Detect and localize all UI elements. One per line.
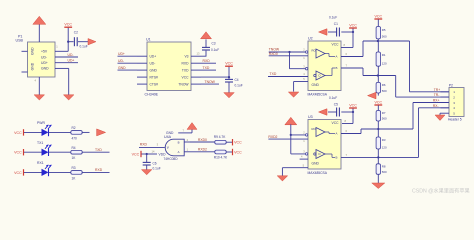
svg-text:UD-: UD- (41, 55, 47, 59)
svg-text:VCC: VCC (375, 14, 383, 18)
svg-text:R4: R4 (72, 146, 76, 150)
wire P2 pin 5 (440, 112, 449, 114)
wire RE to DE vertical U3 (290, 135, 292, 154)
svg-text:R3: R3 (382, 138, 386, 142)
LED PWR (42, 129, 49, 136)
wire TXD to U2 DI (268, 76, 308, 78)
svg-text:TNOW: TNOW (178, 82, 189, 86)
wire C1 left (328, 31, 337, 33)
wire TR- row (396, 96, 449, 98)
svg-text:RXD0: RXD0 (269, 52, 278, 56)
wire to VCC port U3 (352, 108, 354, 112)
svg-text:P2: P2 (449, 83, 453, 87)
wire VCC rail vertical (67, 28, 69, 52)
svg-text:UD+: UD+ (41, 61, 48, 65)
wire A up U3 (360, 129, 362, 134)
resistor R7 (376, 111, 380, 122)
wire A to header vertical (409, 41, 411, 92)
svg-text:TR-: TR- (434, 93, 440, 97)
wire C5 left (328, 111, 337, 113)
wire R9 to VCC (226, 141, 233, 143)
svg-text:GND: GND (150, 68, 158, 72)
power port VCC (U2 chain) (374, 18, 382, 20)
svg-text:0.1uF: 0.1uF (329, 96, 337, 100)
stub P1 left shell pin b (22, 71, 28, 73)
IC U2 MAX485CSA body (308, 41, 341, 91)
wire RXD0 to R9 (190, 141, 215, 143)
svg-text:VCC: VCC (64, 23, 72, 27)
svg-text:RXD: RXD (182, 62, 190, 66)
wire U3 VCC pin up (352, 112, 354, 124)
svg-text:U3: U3 (308, 115, 313, 119)
svg-text:D: D (319, 74, 321, 78)
IC U1 CH340E body (147, 42, 191, 91)
svg-text:VCC: VCC (182, 75, 190, 79)
connector P2 header body (449, 88, 464, 117)
resistor R3 (71, 171, 82, 175)
capacitor C1 (336, 28, 338, 37)
wire U2 A pin (341, 56, 363, 58)
pin stub U1 left 5 (137, 83, 147, 85)
wire C4 to ground (228, 82, 230, 93)
resistor R9 (215, 140, 226, 144)
svg-text:R2: R2 (72, 126, 76, 130)
svg-text:UD-: UD- (68, 53, 74, 57)
svg-text:TXD: TXD (95, 148, 102, 152)
pin stub gate output A (184, 151, 190, 153)
svg-text:TXD: TXD (270, 72, 277, 76)
svg-text:VCC: VCC (132, 153, 140, 157)
pin stub P2 pin 3 (441, 102, 450, 104)
junction TNOW RE/DE (288, 51, 290, 53)
wire VCC to LED TX1 (24, 151, 42, 153)
LED TX1 (42, 149, 49, 156)
power arrow above U3 (285, 117, 297, 125)
wire C2 to power arrow (78, 41, 88, 43)
svg-text:RXD2: RXD2 (198, 148, 207, 152)
wire U2 GND pin (294, 81, 308, 83)
svg-text:B: B (336, 66, 338, 70)
wire LED RX1 to R3 (49, 171, 71, 173)
svg-text:Header 5: Header 5 (448, 117, 462, 121)
pin stub U1 left 4 (137, 76, 147, 78)
wire down to C6 (146, 154, 148, 162)
svg-text:0.1uF: 0.1uF (211, 48, 219, 52)
capacitor C2 (73, 37, 75, 46)
power port VCC (R9) (232, 139, 234, 145)
wire U4 GND pin (178, 132, 192, 134)
resistor R1 (376, 52, 380, 66)
svg-text:120: 120 (382, 146, 387, 150)
wire P1 bottom shield pin (38, 77, 40, 96)
svg-text:GND: GND (31, 62, 35, 70)
svg-text:A: A (336, 132, 338, 136)
wire A up (362, 41, 364, 57)
wire R7 to node A U3 (377, 121, 379, 129)
junction A / R chain U3 (377, 128, 379, 130)
wire VCC pin of U1 (201, 76, 229, 78)
wire RXD2 to U3 RO (268, 138, 308, 140)
resistor R2 (71, 131, 82, 135)
power arrow right (PWR row) (97, 129, 106, 136)
resistor R3 terminator (376, 137, 380, 149)
wire U3 B pin to node (341, 156, 419, 158)
wire RX+ row (413, 102, 449, 104)
wire VCC pin up (352, 32, 354, 48)
wire R1 to node B (377, 66, 379, 75)
ground arrow below U2 (288, 92, 299, 97)
power arrow right of C2 (88, 39, 96, 45)
ground arrow below R6 (368, 92, 377, 99)
svg-text:U4A: U4A (164, 135, 172, 139)
wire R8 to ground (377, 174, 379, 183)
wire R3 to net label (82, 171, 110, 173)
ground arrow left of C1 (319, 29, 328, 36)
wire U3 GND pin (282, 167, 308, 169)
svg-text:C5: C5 (334, 102, 338, 106)
ground arrow below U3 (277, 176, 288, 181)
power port VCC (U4 VDD) (140, 151, 142, 157)
pin stub gate output B (184, 141, 190, 143)
wire TNOW to U2 RE (269, 51, 308, 53)
svg-text:MAX485CSA: MAX485CSA (308, 92, 328, 96)
wire B down (362, 68, 364, 76)
wire VCC to LED PWR (24, 131, 42, 133)
svg-text:VCC: VCC (234, 151, 242, 155)
svg-text:A: A (336, 55, 338, 59)
ground arrow below R8 (372, 183, 385, 189)
wire down to C4 (228, 77, 230, 79)
wire LED TX1 to R4 (49, 151, 71, 153)
svg-text:D: D (319, 152, 321, 156)
power port VCC (U2) (349, 27, 357, 29)
wire TXD from U1 (201, 69, 216, 71)
svg-text:V3: V3 (184, 55, 188, 59)
pin stub U1 right 3 (191, 69, 201, 71)
wire UD+ to U1 (118, 55, 138, 57)
wire RXD from U1 (201, 62, 216, 64)
wire UD- from P1 (55, 56, 78, 58)
internal A/B wiring U3 (325, 131, 329, 133)
ground arrow below C4 (224, 93, 235, 98)
wire GND pin of P1 (55, 67, 69, 69)
wire UD+ from P1 (55, 62, 78, 64)
ground arrow below C6 (141, 170, 152, 175)
svg-text:0.1uF: 0.1uF (329, 16, 337, 20)
wire TR+ row (410, 91, 450, 93)
pin stub U1 right 2 (191, 62, 201, 64)
svg-text:R9 4.7K: R9 4.7K (214, 135, 226, 139)
svg-text:TR+: TR+ (434, 88, 440, 92)
power port VCC (LED PWR) (23, 129, 25, 135)
resistor R5 (376, 27, 380, 39)
svg-text:Y: Y (167, 146, 170, 150)
svg-text:B: B (178, 141, 180, 145)
svg-text:560: 560 (382, 117, 387, 121)
svg-text:TX1: TX1 (37, 141, 43, 145)
pin stub U1 right 4 (191, 76, 201, 78)
power port VBUS arrow up (33, 16, 46, 24)
wire to VCC port U2 (352, 28, 354, 32)
junction A / R chain (377, 40, 379, 42)
svg-text:RX1: RX1 (37, 161, 44, 165)
wire C3 to VCC arrow (205, 39, 207, 47)
svg-text:VCC: VCC (14, 151, 22, 155)
wire P2 pin5 down (439, 113, 441, 115)
svg-text:GND: GND (118, 66, 126, 70)
ground arrow below P1 (34, 95, 45, 100)
svg-text:VCC: VCC (225, 62, 233, 66)
wire into U3 DE (291, 153, 308, 155)
pin stub P2 pin 1 (441, 91, 450, 93)
power port VCC (LED TX1) (23, 149, 25, 155)
svg-text:C2: C2 (74, 31, 78, 35)
svg-text:C4: C4 (235, 78, 239, 82)
junction VCC / C1 (352, 31, 354, 33)
power arrow at U4 GND (187, 123, 197, 130)
wire node A to R1 (377, 41, 379, 52)
svg-text:UD-: UD- (150, 62, 156, 66)
capacitor C6 (143, 161, 151, 163)
power arrow VCC above C3 (201, 32, 212, 39)
wire R6 to ground (377, 93, 379, 96)
svg-text:A: A (178, 150, 180, 154)
wire into U3 RE (291, 134, 308, 136)
junction VCC / C4 (228, 76, 230, 78)
svg-text:0.1uF: 0.1uF (80, 45, 88, 49)
power port VCC (U3) (349, 107, 357, 109)
ground arrow at P2 pin 5 (435, 115, 445, 121)
wire U2 GND vertical (293, 82, 295, 92)
gate U4A body (165, 139, 184, 156)
IC U3 MAX485CSA body (308, 120, 341, 170)
pin stub U1 left 3 (137, 69, 147, 71)
pin stub U1 right 1 (191, 55, 201, 57)
svg-text:R5: R5 (382, 28, 386, 32)
svg-text:VCC: VCC (332, 121, 340, 125)
resistor R6 (376, 82, 380, 93)
svg-text:RXD0: RXD0 (198, 138, 207, 142)
wire P1 top shield pin (38, 25, 40, 43)
svg-text:R8: R8 (382, 165, 386, 169)
riser to power arrow U4 (191, 129, 193, 133)
connector P1 USB body (28, 42, 56, 77)
svg-text:U1: U1 (146, 38, 151, 42)
internal driver triangle U2 (316, 71, 325, 80)
wire node B to R8 (377, 157, 379, 163)
svg-text:RX-: RX- (433, 104, 439, 108)
wire RXD to gate input (139, 146, 165, 148)
power port VCC (R10) (232, 149, 234, 155)
svg-text:MAX485CSA: MAX485CSA (308, 171, 328, 175)
svg-text:CTS#: CTS# (150, 82, 159, 86)
svg-text:R6: R6 (382, 83, 386, 87)
capacitor C3 (202, 46, 210, 48)
svg-text:VCC: VCC (332, 43, 340, 47)
svg-text:VCC: VCC (234, 141, 242, 145)
junction VDD / C6 (146, 153, 148, 155)
internal A/B wiring U2 (325, 53, 329, 55)
wire RXD0 to U2 RO (269, 55, 308, 57)
svg-text:RTS#: RTS# (150, 75, 159, 79)
wire node B to R6 (377, 76, 379, 83)
svg-text:R10 4.7K: R10 4.7K (214, 156, 228, 160)
wire UD- to U1 (118, 62, 138, 64)
svg-text:GND: GND (41, 67, 49, 71)
power port VCC (U1) (225, 65, 233, 67)
wire +5V pin to VCC rail (55, 50, 68, 52)
wire R10 to VCC (226, 151, 233, 153)
svg-text:U2: U2 (308, 37, 313, 41)
svg-text:UD-: UD- (118, 59, 124, 63)
pin stub U1 left 2 (137, 62, 147, 64)
pin stub U3 DI (300, 158, 308, 160)
svg-text:VCC: VCC (349, 23, 357, 27)
wire VCC to LED RX1 (24, 171, 42, 173)
pin stub P2 pin 4 (441, 107, 450, 109)
wire TNOW from U1 (201, 83, 219, 85)
svg-text:120: 120 (382, 62, 387, 66)
wire RE to DE vertical (289, 52, 291, 69)
svg-text:+5V: +5V (41, 50, 48, 54)
svg-text:VCC: VCC (349, 103, 357, 107)
wire up to VCC port (228, 67, 230, 78)
junction VCC / C5 (352, 111, 354, 113)
svg-text:GND: GND (312, 83, 320, 87)
wire R2 to power arrow (82, 131, 90, 133)
wire B to header vertical U3 (418, 108, 420, 158)
stub P1 left shell pin a (22, 50, 28, 52)
svg-text:UD+: UD+ (150, 55, 157, 59)
wire U3 A pin (341, 133, 361, 135)
wire R5 to node A (377, 39, 379, 41)
resistor R8 (376, 164, 380, 175)
wire R4 to net label (82, 151, 110, 153)
svg-text:560: 560 (382, 170, 387, 174)
wire VCC to R7 (377, 105, 379, 110)
svg-text:GND: GND (166, 131, 174, 135)
capacitor C5 (336, 108, 338, 117)
wire VCC to VDD pin (142, 153, 158, 155)
svg-text:0.1uF: 0.1uF (153, 166, 161, 170)
svg-text:B: B (336, 156, 338, 160)
wire U3 VCC pin 8 (342, 123, 353, 125)
svg-text:RXD: RXD (140, 142, 148, 146)
wire into U2 DE (290, 68, 309, 70)
wire A node horizontal (363, 40, 410, 42)
svg-text:VCC: VCC (375, 100, 383, 104)
power port VCC (LED RX1) (23, 169, 25, 175)
wire GND to U1 (118, 69, 138, 71)
svg-text:GND: GND (31, 47, 35, 55)
LED RX1 (42, 169, 49, 176)
svg-text:RX+: RX+ (433, 99, 440, 103)
wire LED PWR to R2 (49, 131, 71, 133)
svg-text:TNOW: TNOW (205, 80, 216, 84)
svg-text:560: 560 (382, 35, 387, 39)
wire C5 right (341, 111, 353, 113)
wire to capacitor C2 (68, 41, 73, 43)
svg-text:GND: GND (312, 162, 320, 166)
svg-text:C1: C1 (334, 22, 338, 26)
wire VCC to R5 (377, 19, 379, 26)
junction +5V / C2 (67, 41, 69, 43)
svg-text:USB: USB (16, 38, 24, 42)
svg-text:VCC: VCC (14, 171, 22, 175)
wire B node horizontal (363, 75, 396, 77)
svg-text:UD+: UD+ (68, 59, 75, 63)
wire U3 GND vertical (281, 168, 283, 176)
wire R3 to node B U3 (377, 149, 379, 157)
wire V3 to C3 (201, 51, 206, 57)
svg-text:CH340E: CH340E (145, 93, 159, 97)
svg-text:RXD: RXD (203, 59, 211, 63)
svg-text:VDD: VDD (159, 152, 167, 156)
resistor R4 (71, 150, 82, 154)
power port VCC (USB) (64, 26, 72, 28)
wire U2 VCC pin 8 (341, 47, 353, 49)
wire C1 right (341, 31, 353, 33)
svg-text:PWR: PWR (37, 121, 45, 125)
svg-text:RXD: RXD (95, 168, 103, 172)
svg-text:R1: R1 (382, 53, 386, 57)
wire U2 B pin (341, 67, 363, 69)
pin stub U1 left 1 (137, 55, 147, 57)
wire C6 to ground (146, 165, 148, 170)
capacitor C4 (225, 78, 233, 80)
svg-text:R7: R7 (382, 111, 386, 115)
pin stub P2 pin 2 (441, 96, 450, 98)
junction B / R chain U3 (377, 156, 379, 158)
svg-text:CSDN @水果里面有苹果: CSDN @水果里面有苹果 (412, 187, 470, 195)
svg-text:74HC08D: 74HC08D (164, 157, 179, 161)
internal receiver triangle U3 (316, 128, 325, 137)
junction RE/DE U3 (290, 134, 292, 136)
svg-text:C3: C3 (212, 41, 216, 45)
svg-text:RXD2: RXD2 (268, 135, 277, 139)
svg-text:TXD: TXD (203, 66, 210, 70)
wire A node horizontal U3 (361, 128, 413, 130)
svg-text:R3: R3 (72, 166, 76, 170)
svg-text:TXD: TXD (182, 68, 189, 72)
internal driver triangle U3 (316, 150, 325, 159)
wire arrow down to RE (290, 124, 292, 135)
junction B / R chain (377, 74, 379, 76)
svg-text:UD+: UD+ (118, 52, 125, 56)
wire B to header vertical (395, 76, 397, 98)
svg-text:0.1uF: 0.1uF (235, 83, 243, 87)
wire RX- row (419, 107, 450, 109)
ground arrow (P1 GND) (63, 95, 73, 100)
wire A to header vertical U3 (412, 103, 414, 130)
internal receiver triangle U2 (316, 49, 325, 58)
power port VCC (U3 chain) (374, 104, 382, 106)
pin stub U1 right 5 (191, 83, 201, 85)
svg-text:VCC: VCC (14, 131, 22, 135)
svg-text:C6: C6 (153, 161, 157, 165)
wire RXD2 to R10 (190, 151, 215, 153)
svg-text:560: 560 (382, 89, 387, 93)
wire node A to R3chain (377, 129, 379, 137)
svg-text:470: 470 (72, 136, 78, 140)
ground arrow left of C5 (319, 109, 328, 116)
wire GND vertical (68, 68, 70, 95)
resistor R10 (215, 150, 226, 154)
